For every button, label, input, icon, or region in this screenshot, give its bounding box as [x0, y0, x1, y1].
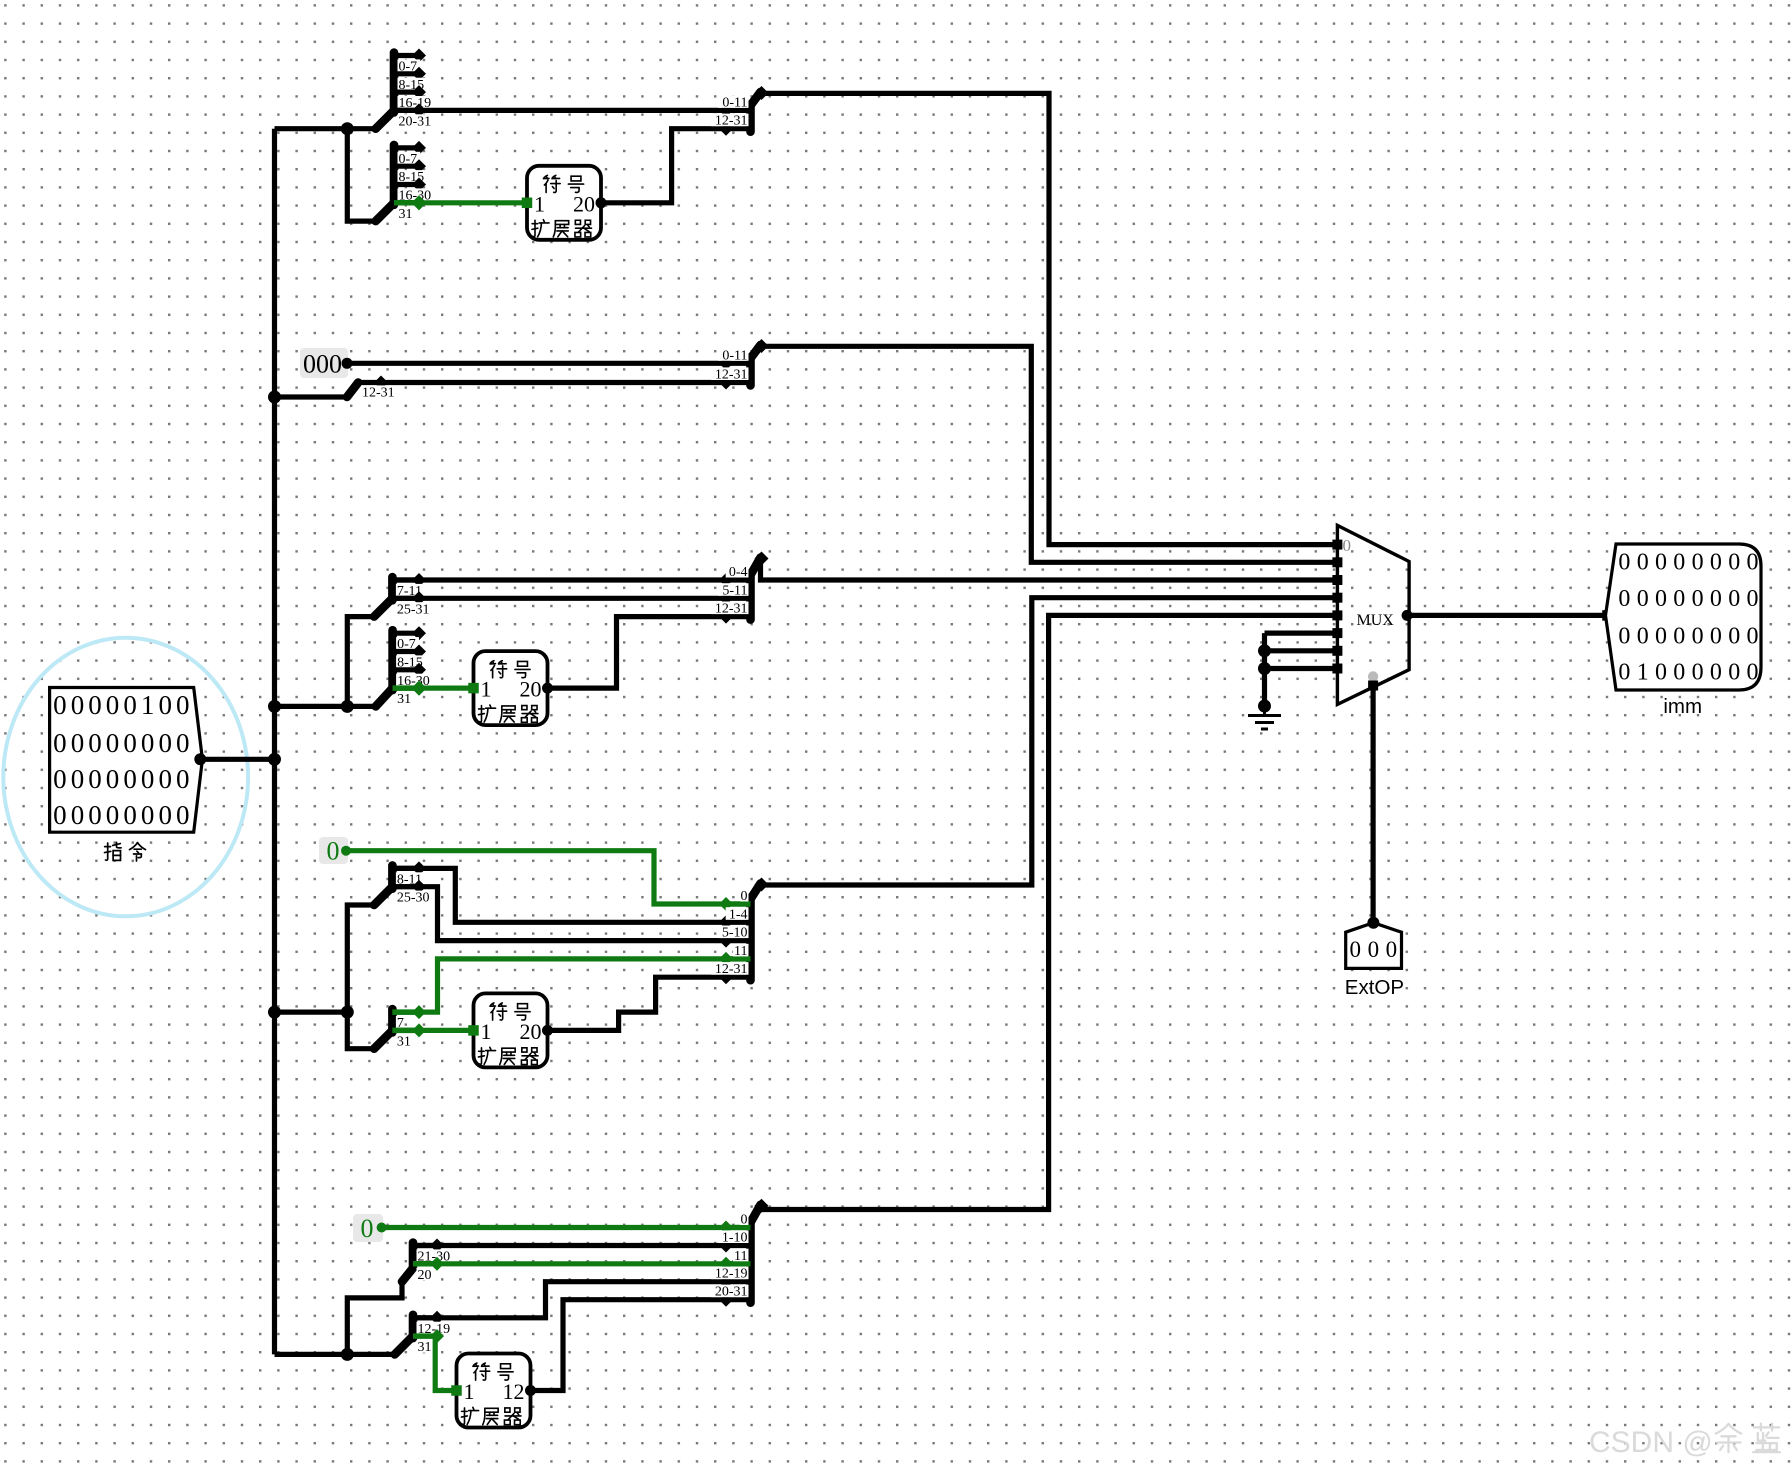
svg-text:0: 0: [741, 889, 748, 904]
svg-text:0: 0: [53, 728, 67, 758]
wire constant0 to S5C bit0: [382, 1225, 726, 1230]
wire S1C to MUX input 0: [762, 93, 1337, 544]
merge splitter S3C (0-4/5-11/12-31): [711, 552, 768, 624]
constant 000 output dot: [342, 358, 353, 369]
svg-text:0: 0: [158, 800, 172, 830]
junction group3: [341, 700, 354, 713]
svg-text:0: 0: [88, 800, 102, 830]
svg-text:0: 0: [1692, 586, 1704, 612]
svg-text:0: 0: [1710, 624, 1722, 650]
constant 0 (group5, 1-bit): [353, 1214, 383, 1243]
svg-text:31: 31: [418, 1340, 432, 1355]
svg-text:0: 0: [1747, 624, 1759, 650]
wire MUX output to imm: [1409, 613, 1607, 618]
svg-text:1-10: 1-10: [722, 1231, 748, 1246]
svg-text:20: 20: [520, 1019, 542, 1044]
svg-text:0: 0: [1728, 660, 1740, 686]
splitter S4B (7/31): [374, 1005, 426, 1049]
wire S4B bit7 to S4C bit11: [392, 959, 726, 1012]
pin square imm input: [1602, 610, 1613, 621]
splitter S4A (8-11/25-30): [374, 861, 433, 905]
svg-text:0: 0: [1386, 937, 1398, 962]
ground junction 1: [1258, 644, 1271, 657]
sign extender U1 符号扩展器: [522, 166, 607, 240]
svg-text:0: 0: [1655, 550, 1667, 576]
wire junction up to splitter S5A: [347, 1282, 402, 1355]
svg-text:0: 0: [1692, 624, 1704, 650]
svg-text:0-4: 0-4: [729, 565, 748, 580]
svg-text:0: 0: [1710, 550, 1722, 576]
wire S5B bits12-19 to S5C bits12-19: [413, 1282, 726, 1318]
svg-text:1: 1: [1637, 660, 1649, 686]
MUX input pin squares: [1332, 540, 1342, 674]
wire junction up to splitter S4A: [347, 905, 375, 1012]
sign extender U3 符号扩展器: [468, 993, 553, 1067]
svg-text:0: 0: [1673, 550, 1685, 576]
svg-text:11: 11: [734, 1249, 747, 1264]
wire S2A to S2C bits12-31: [381, 380, 726, 385]
svg-text:0: 0: [123, 728, 137, 758]
wire S4A bits25-30 to S4C bits5-10: [392, 887, 726, 941]
wire S1A bits20-31 to S1C: [394, 108, 726, 113]
wire S3C to MUX input 2: [761, 559, 1338, 580]
wire bus to splitter S2A: [275, 394, 348, 399]
svg-text:12-19: 12-19: [715, 1267, 748, 1282]
svg-text:0: 0: [1637, 550, 1649, 576]
svg-text:0: 0: [106, 800, 120, 830]
merge splitter S5C (0/1-10/11/12-19/20-31): [711, 1199, 768, 1307]
svg-text:31: 31: [397, 692, 411, 707]
svg-text:0: 0: [71, 800, 85, 830]
svg-text:1: 1: [464, 1379, 475, 1404]
svg-text:0: 0: [1618, 660, 1630, 686]
merge splitter S1C (0-11/12-31): [711, 86, 768, 136]
svg-text:0: 0: [123, 690, 137, 720]
svg-text:0: 0: [141, 800, 155, 830]
svg-text:0: 0: [106, 728, 120, 758]
wire junction down to splitter S1B: [347, 129, 376, 221]
ground junction 2: [1258, 662, 1271, 675]
svg-text:0: 0: [1710, 586, 1722, 612]
svg-text:0: 0: [1728, 586, 1740, 612]
label 指令: [105, 842, 146, 861]
splitter S1A (0-7/8-15/16-19/20-31): [376, 49, 435, 130]
svg-text:0: 0: [71, 764, 85, 794]
svg-text:0: 0: [106, 764, 120, 794]
wire constant0 to S4C bit0: [346, 851, 726, 904]
svg-text:12-31: 12-31: [715, 368, 748, 383]
splitter S5B (12-19/31): [395, 1311, 454, 1355]
CSDN watermark: [1589, 1424, 1780, 1459]
svg-text:0: 0: [141, 728, 155, 758]
svg-text:0: 0: [1673, 660, 1685, 686]
svg-text:12-31: 12-31: [715, 114, 748, 129]
wire input to bus: [200, 757, 274, 762]
merge splitter S4C (0/1-4/5-10/11/12-31): [711, 878, 768, 985]
constant 0 (group4, 1-bit): [319, 837, 348, 866]
splitter S5A (21-30/20): [402, 1239, 454, 1283]
wire ground to MUX input 6: [1265, 648, 1338, 653]
svg-text:1: 1: [141, 690, 155, 720]
splitter S3B (0-7/8-15/16-30/31): [376, 626, 434, 707]
svg-text:0: 0: [1673, 624, 1685, 650]
wire S2C to MUX input 1: [762, 346, 1337, 562]
svg-text:12: 12: [503, 1379, 525, 1404]
merge splitter S2C (0-11/12-31): [711, 339, 768, 390]
svg-text:0: 0: [1618, 624, 1630, 650]
svg-text:imm: imm: [1663, 695, 1702, 718]
svg-text:0: 0: [88, 728, 102, 758]
splitter S1B (0-7/8-15/16-30/31): [376, 141, 435, 222]
wire MUX select to ExtOP: [1370, 686, 1375, 923]
output port imm: [1606, 544, 1762, 690]
svg-text:0-11: 0-11: [722, 95, 747, 110]
wire U4 out to S5C bits20-31: [531, 1300, 727, 1391]
wire bus bottom to splitter S5B: [275, 1352, 396, 1357]
svg-text:1: 1: [481, 677, 492, 702]
svg-text:0: 0: [158, 764, 172, 794]
svg-text:0: 0: [176, 728, 190, 758]
wire bus to splitter S4B: [275, 1009, 354, 1014]
ground symbol: [1248, 706, 1281, 729]
svg-text:MUX: MUX: [1357, 612, 1395, 629]
ExtOP pin dot: [1367, 917, 1379, 929]
svg-text:20: 20: [520, 677, 542, 702]
svg-text:12-31: 12-31: [715, 602, 748, 617]
multiplexer MUX U5: [1337, 525, 1409, 704]
instruction output pin dot: [194, 753, 206, 765]
svg-text:0: 0: [361, 1214, 374, 1243]
svg-text:0: 0: [1618, 586, 1630, 612]
svg-text:5-10: 5-10: [722, 926, 748, 941]
sign extender U4 符号扩展器 (1->12): [451, 1354, 536, 1428]
wire ground to MUX input 5: [1265, 630, 1338, 635]
sign extender U2 符号扩展器: [468, 651, 553, 725]
wire S5A bit20 to S5C bit11: [413, 1261, 726, 1266]
bus junction group3: [268, 700, 281, 713]
svg-text:0: 0: [1728, 624, 1740, 650]
svg-text:11: 11: [734, 944, 747, 959]
svg-text:5-11: 5-11: [722, 583, 747, 598]
wire S3A bits7-11 to S3C bits0-4: [392, 577, 726, 582]
svg-text:1: 1: [481, 1019, 492, 1044]
svg-text:0: 0: [1655, 624, 1667, 650]
svg-text:31: 31: [397, 1034, 411, 1049]
wire S5C to MUX input 4: [762, 615, 1337, 1209]
MUX select pin: [1368, 671, 1378, 690]
wire constant 000 to S2C bits0-11: [347, 361, 726, 366]
wire bus to splitter S1A: [275, 126, 377, 131]
main bus vertical: [272, 129, 277, 1355]
wire S4B bit31 to sign-extender U3: [392, 1028, 473, 1033]
svg-text:0: 0: [1637, 586, 1649, 612]
svg-text:0: 0: [1747, 660, 1759, 686]
svg-text:0: 0: [1747, 586, 1759, 612]
svg-text:0: 0: [1655, 660, 1667, 686]
svg-text:25-30: 25-30: [397, 891, 430, 906]
svg-text:0: 0: [53, 800, 67, 830]
svg-text:0: 0: [176, 764, 190, 794]
svg-text:0: 0: [158, 728, 172, 758]
bus junction group4: [268, 1006, 281, 1019]
svg-text:0: 0: [106, 690, 120, 720]
svg-text:ExtOP: ExtOP: [1345, 976, 1404, 999]
svg-text:0: 0: [1618, 550, 1630, 576]
junction group1: [341, 122, 354, 135]
svg-text:0: 0: [1728, 550, 1740, 576]
svg-text:0: 0: [1655, 586, 1667, 612]
MUX output dot: [1402, 610, 1413, 621]
svg-text:20-31: 20-31: [715, 1285, 748, 1300]
ground vertical wire: [1262, 633, 1267, 706]
svg-text:25-31: 25-31: [397, 602, 430, 617]
constant 0 output dot (group5): [377, 1223, 387, 1233]
wire S1B bit31 to sign-extender U1 (1-bit): [394, 200, 527, 205]
svg-text:0-11: 0-11: [722, 348, 747, 363]
constant 0 output dot (group4): [341, 846, 351, 856]
svg-text:0: 0: [741, 1213, 748, 1228]
wire U2 out to S3C bits12-31: [548, 617, 727, 689]
svg-text:0: 0: [88, 690, 102, 720]
highlight circle around instruction input: [3, 638, 248, 917]
svg-text:31: 31: [399, 207, 413, 222]
svg-text:12-31: 12-31: [362, 386, 395, 401]
splitter S3A (7-11/25-31): [374, 573, 433, 617]
wire S3B bit31 to sign-extender U2 (1-bit): [393, 685, 474, 690]
bus junction input: [268, 753, 281, 766]
svg-text:0: 0: [1368, 937, 1380, 962]
svg-text:0: 0: [123, 800, 137, 830]
instruction input bits: [53, 690, 189, 830]
svg-text:0: 0: [53, 690, 67, 720]
svg-text:20: 20: [573, 191, 595, 216]
svg-text:0: 0: [158, 690, 172, 720]
svg-text:0: 0: [53, 764, 67, 794]
wire S4A bits8-11 to S4C bits1-4: [392, 868, 726, 922]
svg-text:0: 0: [327, 837, 340, 866]
svg-text:0: 0: [1673, 586, 1685, 612]
svg-text:0: 0: [71, 690, 85, 720]
svg-text:0: 0: [123, 764, 137, 794]
wire junction down to S4B anchor: [347, 1012, 375, 1049]
input port 指令 (instruction): [50, 688, 203, 833]
svg-text:0: 0: [71, 728, 85, 758]
svg-text:0: 0: [1710, 660, 1722, 686]
wire bus to splitter S3B: [275, 704, 377, 709]
wire S5A bits21-30 to S5C bits1-10: [413, 1243, 726, 1248]
wire U1 out to S1C bits12-31: [601, 129, 726, 203]
junction group5: [341, 1348, 354, 1361]
junction group4: [341, 1006, 354, 1019]
svg-text:20-31: 20-31: [399, 114, 432, 129]
svg-text:0: 0: [88, 764, 102, 794]
svg-text:1: 1: [534, 191, 545, 216]
wire ground to MUX input 7: [1265, 666, 1338, 671]
wire S4C to MUX input 3: [762, 598, 1337, 885]
wire junction up to splitter S3A: [347, 617, 375, 707]
svg-text:0: 0: [1350, 937, 1362, 962]
input port ExtOP: [1346, 923, 1402, 969]
svg-text:0: 0: [1637, 624, 1649, 650]
bus junction group2: [268, 391, 281, 404]
constant 000: [300, 348, 348, 379]
ground junction 3: [1258, 700, 1271, 713]
imm output bits: [1618, 550, 1758, 686]
svg-text:0: 0: [1343, 536, 1352, 555]
svg-text:12-31: 12-31: [715, 962, 748, 977]
wire S5B bit31 to sign-extender U4: [435, 1336, 456, 1390]
svg-text:0: 0: [176, 800, 190, 830]
svg-text:CSDN @: CSDN @: [1589, 1426, 1713, 1459]
svg-text:0: 0: [1692, 550, 1704, 576]
splitter S2A (12-31 pass): [347, 376, 398, 401]
svg-text:20: 20: [418, 1268, 432, 1283]
wire S3A bits25-31 to S3C bits5-11: [392, 596, 726, 601]
svg-text:0: 0: [176, 690, 190, 720]
svg-text:0: 0: [1692, 660, 1704, 686]
svg-text:0: 0: [1747, 550, 1759, 576]
wire U3 out to S4C bits12-31: [548, 977, 727, 1030]
svg-text:000: 000: [303, 350, 342, 379]
svg-text:0: 0: [141, 764, 155, 794]
svg-text:1-4: 1-4: [729, 907, 748, 922]
